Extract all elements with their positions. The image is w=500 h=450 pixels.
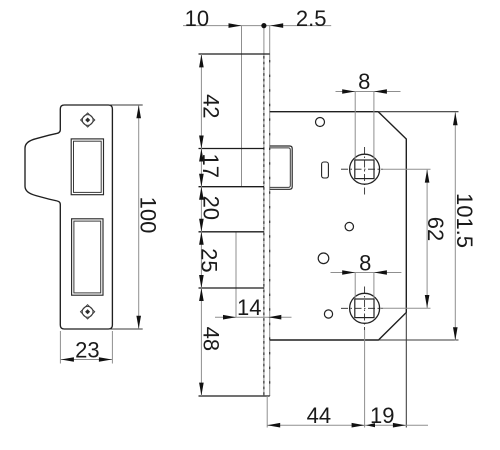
svg-text:42: 42 — [199, 94, 224, 118]
svg-text:48: 48 — [199, 327, 224, 351]
svg-text:62: 62 — [423, 217, 448, 241]
svg-text:17: 17 — [198, 153, 223, 177]
svg-text:14: 14 — [237, 295, 261, 320]
svg-text:19: 19 — [370, 403, 394, 428]
svg-text:20: 20 — [199, 196, 224, 220]
svg-text:10: 10 — [185, 6, 209, 31]
svg-text:100: 100 — [136, 197, 161, 234]
svg-text:101.5: 101.5 — [452, 193, 477, 248]
svg-text:23: 23 — [75, 338, 99, 363]
svg-text:8: 8 — [358, 69, 370, 94]
svg-text:25: 25 — [196, 248, 221, 272]
svg-text:44: 44 — [307, 403, 331, 428]
svg-text:8: 8 — [359, 250, 371, 275]
svg-text:2.5: 2.5 — [296, 6, 327, 31]
